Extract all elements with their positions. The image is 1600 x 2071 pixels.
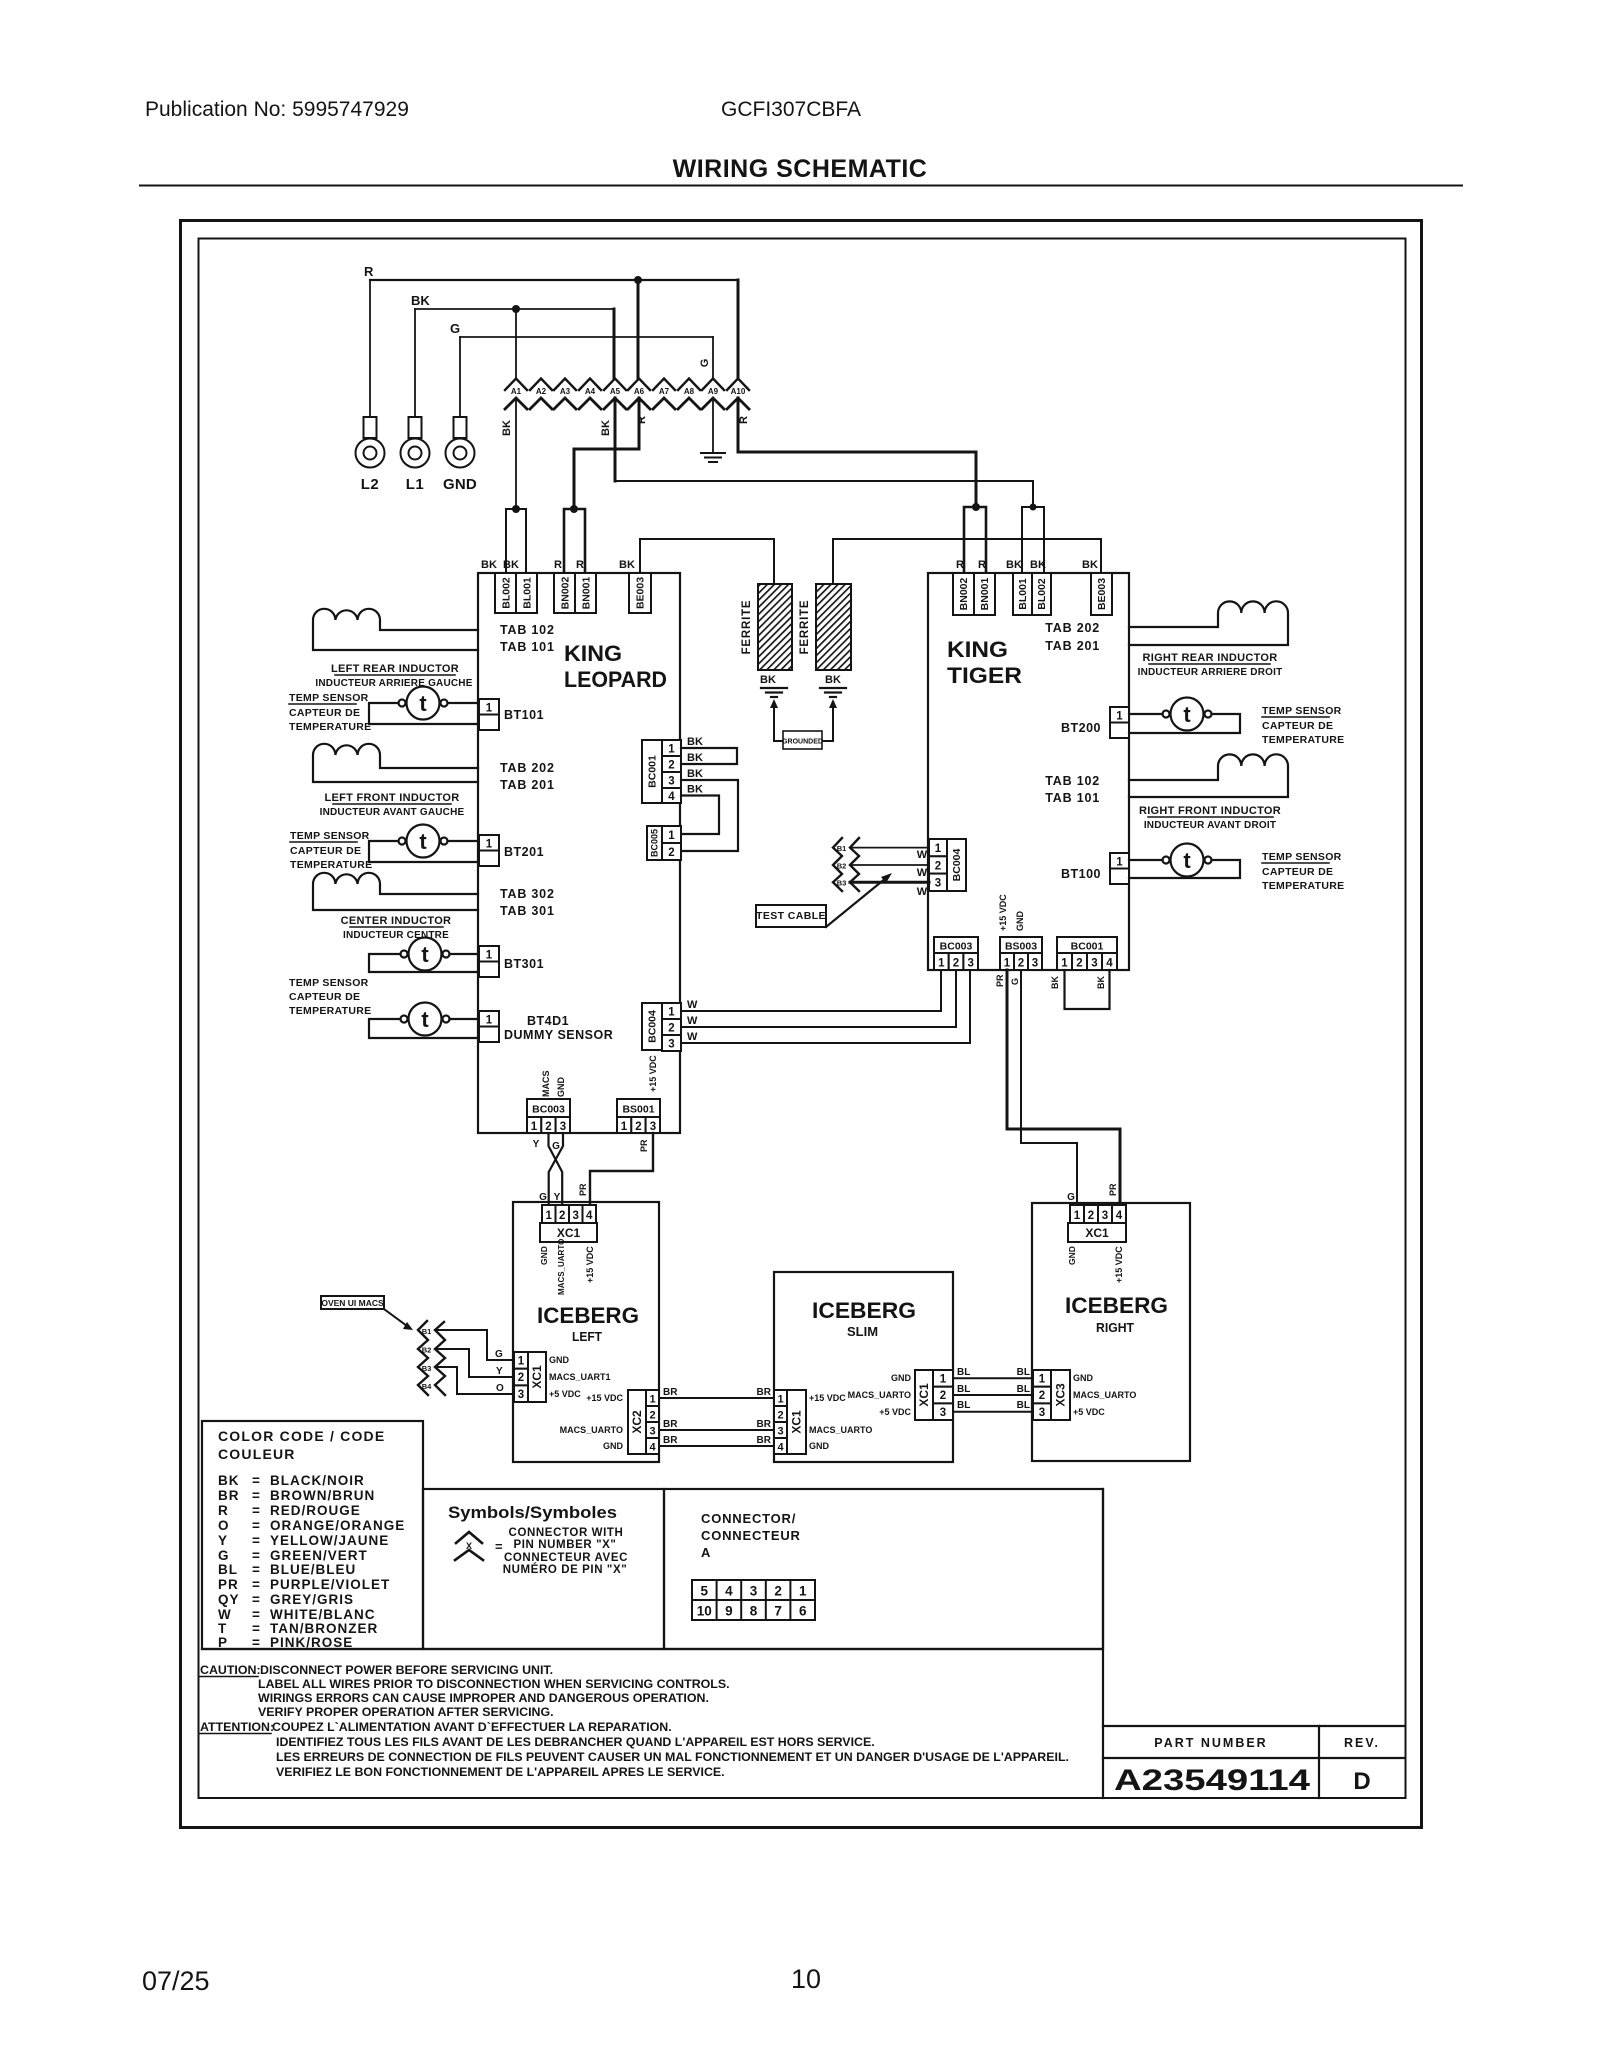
svg-text:1: 1 bbox=[1116, 857, 1123, 869]
svg-text:A23549114: A23549114 bbox=[1114, 1764, 1310, 1797]
svg-text:XC1: XC1 bbox=[557, 1226, 581, 1240]
svg-text:1: 1 bbox=[935, 843, 942, 855]
svg-text:t: t bbox=[419, 691, 427, 716]
svg-text:9: 9 bbox=[725, 1604, 733, 1619]
svg-text:3: 3 bbox=[940, 1407, 946, 1419]
svg-text:TEMP SENSOR: TEMP SENSOR bbox=[289, 692, 369, 704]
ground ferrite 1 bbox=[761, 688, 787, 697]
svg-text:BK: BK bbox=[411, 293, 430, 308]
connector BL001 (KL top) bbox=[516, 573, 537, 613]
terminal L1 bbox=[401, 417, 430, 468]
wire BC001 pin 3 to BC005 pin 2 BK bbox=[681, 780, 738, 851]
svg-text:W: W bbox=[917, 886, 928, 898]
svg-text:A6: A6 bbox=[634, 387, 645, 396]
svg-text:R: R bbox=[738, 416, 750, 424]
wire R drop to A10 bbox=[737, 280, 740, 379]
inductor right rear coil bbox=[1129, 601, 1288, 645]
svg-text:2: 2 bbox=[545, 1121, 551, 1133]
wire BC001 pin 4 to BC005 pin 1 BK bbox=[681, 796, 719, 835]
svg-text:BK: BK bbox=[501, 420, 513, 436]
wire L1 lead bbox=[414, 309, 416, 417]
wire B1 to BC004 pin1 bbox=[850, 847, 929, 849]
svg-text:2: 2 bbox=[940, 1390, 946, 1402]
svg-text:TEMP SENSOR: TEMP SENSOR bbox=[1262, 705, 1342, 717]
svg-text:=: = bbox=[252, 1577, 261, 1592]
svg-text:3: 3 bbox=[650, 1121, 656, 1133]
svg-text:A8: A8 bbox=[684, 387, 695, 396]
svg-text:TEMPERATURE: TEMPERATURE bbox=[289, 1005, 371, 1017]
svg-text:t: t bbox=[1183, 848, 1191, 873]
svg-text:BC004: BC004 bbox=[951, 848, 963, 881]
svg-text:FERRITE: FERRITE bbox=[741, 600, 753, 655]
wire KL BN split bbox=[564, 509, 585, 573]
svg-text:XC1: XC1 bbox=[1085, 1226, 1109, 1240]
ground under A9 bbox=[701, 453, 725, 462]
temp sensor BT100 bbox=[1129, 844, 1240, 879]
svg-text:=: = bbox=[495, 1539, 503, 1554]
svg-text:GROUNDED: GROUNDED bbox=[782, 739, 823, 746]
svg-text:PR: PR bbox=[1108, 1183, 1118, 1196]
wire ferrite 1 to grounded bbox=[774, 708, 783, 741]
svg-text:L2: L2 bbox=[361, 476, 380, 493]
wire B1 G to XC1 left pin1 bbox=[435, 1330, 514, 1360]
svg-text:G: G bbox=[218, 1548, 230, 1563]
svg-text:BC005: BC005 bbox=[650, 829, 660, 857]
inductor left front coil bbox=[313, 744, 478, 782]
wire G drop to A9 bbox=[712, 337, 714, 379]
svg-text:CAPTEUR DE: CAPTEUR DE bbox=[289, 707, 360, 719]
svg-text:RIGHT REAR INDUCTOR: RIGHT REAR INDUCTOR bbox=[1142, 652, 1277, 664]
wire KT BL split bbox=[1022, 507, 1044, 573]
svg-text:A: A bbox=[701, 1545, 711, 1560]
temp sensor BT301 bbox=[369, 938, 478, 973]
svg-text:3: 3 bbox=[777, 1426, 783, 1438]
leader oven ui macs arrow bbox=[384, 1309, 407, 1326]
wire KL BC003 Y/G crossover to XC1 bbox=[549, 1133, 563, 1203]
svg-text:3: 3 bbox=[560, 1121, 566, 1133]
svg-text:1: 1 bbox=[531, 1121, 538, 1133]
svg-text:PR: PR bbox=[639, 1139, 649, 1152]
svg-text:1: 1 bbox=[938, 958, 945, 970]
svg-text:PART NUMBER: PART NUMBER bbox=[1154, 1736, 1267, 1750]
svg-text:BT301: BT301 bbox=[504, 957, 544, 971]
cable chain B1-B4 left chevrons bbox=[418, 1321, 428, 1395]
svg-text:TEMPERATURE: TEMPERATURE bbox=[1262, 734, 1344, 746]
svg-text:BL: BL bbox=[957, 1367, 970, 1378]
svg-text:1: 1 bbox=[777, 1394, 783, 1406]
wire XC2 pin4 BR to SLIM XC1 pin4 bbox=[659, 1445, 774, 1447]
wire KT BE003 to ferrite 2 bbox=[833, 539, 1101, 584]
svg-text:CONNECTEUR: CONNECTEUR bbox=[701, 1528, 801, 1543]
svg-text:=: = bbox=[252, 1635, 261, 1650]
svg-text:KING: KING bbox=[564, 641, 622, 666]
pin box BT4D1 bbox=[479, 1011, 499, 1027]
connector BN001 (KT top) bbox=[974, 573, 995, 615]
svg-text:BS003: BS003 bbox=[1005, 941, 1037, 953]
svg-text:A4: A4 bbox=[585, 387, 596, 396]
svg-text:2: 2 bbox=[777, 1410, 783, 1422]
connector BS003 (KT bottom) bbox=[1000, 937, 1042, 953]
wire G top horizontal bbox=[460, 336, 713, 338]
svg-text:CAPTEUR DE: CAPTEUR DE bbox=[1262, 866, 1333, 878]
svg-text:4: 4 bbox=[586, 1210, 593, 1222]
svg-text:G: G bbox=[1067, 1192, 1075, 1203]
svg-text:4: 4 bbox=[1106, 958, 1113, 970]
wire R top horizontal bbox=[370, 279, 738, 281]
svg-text:BL002: BL002 bbox=[501, 577, 513, 609]
connector BL002 (KT top) bbox=[1032, 573, 1051, 615]
connector XC2 (ICEBERG LEFT right) bbox=[628, 1390, 646, 1454]
svg-text:BL: BL bbox=[1017, 1367, 1030, 1378]
inductor right front coil bbox=[1129, 754, 1288, 797]
svg-text:XC1: XC1 bbox=[530, 1365, 544, 1389]
svg-text:A7: A7 bbox=[659, 387, 670, 396]
svg-text:CONNECTOR WITH: CONNECTOR WITH bbox=[509, 1527, 624, 1539]
wire B2 Y to XC1 left pin2 bbox=[436, 1349, 514, 1377]
wire SLIM XC1 pin1 BL to XC3 pin1 bbox=[953, 1377, 1033, 1379]
connector BC001 (KL right) bbox=[642, 740, 662, 803]
svg-text:LEOPARD: LEOPARD bbox=[564, 667, 667, 692]
svg-text:TAB 101: TAB 101 bbox=[1045, 791, 1100, 805]
svg-text:07/25: 07/25 bbox=[142, 1966, 210, 1996]
svg-text:GCFI307CBFA: GCFI307CBFA bbox=[721, 98, 861, 121]
wire SLIM XC1 pin3 BL to XC3 pin3 bbox=[953, 1411, 1033, 1413]
svg-text:PIN NUMBER "X": PIN NUMBER "X" bbox=[513, 1539, 616, 1551]
svg-text:3: 3 bbox=[649, 1426, 655, 1438]
svg-text:TAB 102: TAB 102 bbox=[500, 623, 555, 637]
svg-text:MACS: MACS bbox=[541, 1071, 551, 1098]
svg-text:G: G bbox=[539, 1192, 547, 1203]
color code entries bbox=[218, 1473, 405, 1650]
svg-text:1: 1 bbox=[621, 1121, 628, 1133]
ICEBERG SLIM board box bbox=[774, 1272, 953, 1462]
temp sensor BT200 bbox=[1129, 698, 1240, 734]
wire R feed to KING LEOPARD BN pair bbox=[574, 449, 639, 509]
svg-text:B3: B3 bbox=[422, 1364, 432, 1373]
wire B3 to BC004 pin3 bbox=[850, 881, 929, 884]
svg-text:BK: BK bbox=[481, 559, 497, 571]
svg-text:=: = bbox=[252, 1592, 261, 1607]
svg-text:G: G bbox=[495, 1349, 503, 1360]
svg-text:+5 VDC: +5 VDC bbox=[879, 1407, 911, 1417]
svg-text:1: 1 bbox=[518, 1356, 525, 1368]
svg-text:XC3: XC3 bbox=[1054, 1383, 1068, 1407]
wire BK drop to A5 bbox=[613, 309, 616, 379]
wire A1 drop BK bbox=[515, 398, 517, 509]
connector BC005 (KL right) bbox=[647, 826, 662, 860]
svg-text:2: 2 bbox=[1018, 958, 1024, 970]
svg-text:MACS_UARTO: MACS_UARTO bbox=[560, 1425, 623, 1435]
wire BK drop to A1 bbox=[515, 309, 517, 379]
svg-text:G: G bbox=[552, 1141, 560, 1152]
svg-text:XC1: XC1 bbox=[917, 1383, 931, 1407]
connector XC1 (ICEBERG LEFT left) bbox=[514, 1352, 528, 1369]
node KL BN junction bbox=[570, 505, 578, 513]
svg-text:Y: Y bbox=[218, 1533, 228, 1548]
svg-text:BLUE/BLEU: BLUE/BLEU bbox=[270, 1562, 356, 1577]
svg-text:GND: GND bbox=[549, 1355, 570, 1365]
svg-text:3: 3 bbox=[1102, 1210, 1108, 1222]
connector A pin table bbox=[692, 1580, 815, 1620]
svg-text:BC004: BC004 bbox=[647, 1010, 659, 1043]
svg-text:R: R bbox=[554, 559, 562, 571]
svg-text:FERRITE: FERRITE bbox=[799, 600, 811, 655]
svg-text:BT201: BT201 bbox=[504, 845, 544, 859]
svg-text:3: 3 bbox=[1032, 958, 1038, 970]
svg-text:TEMP SENSOR: TEMP SENSOR bbox=[289, 977, 369, 989]
ground ferrite 2 bbox=[820, 688, 846, 697]
ICEBERG LEFT board box bbox=[513, 1202, 659, 1462]
part number table bbox=[1103, 1726, 1405, 1798]
svg-text:INDUCTEUR AVANT DROIT: INDUCTEUR AVANT DROIT bbox=[1144, 820, 1276, 831]
connector A legend box bbox=[664, 1489, 1103, 1649]
svg-text:3: 3 bbox=[668, 776, 674, 788]
svg-text:PURPLE/VIOLET: PURPLE/VIOLET bbox=[270, 1577, 390, 1592]
svg-text:BL002: BL002 bbox=[1036, 578, 1048, 610]
svg-text:BK: BK bbox=[619, 559, 635, 571]
svg-text:+15 VDC: +15 VDC bbox=[1114, 1246, 1124, 1283]
svg-text:BK: BK bbox=[218, 1473, 240, 1488]
svg-text:W: W bbox=[687, 1015, 698, 1027]
svg-text:CAUTION:: CAUTION: bbox=[200, 1663, 261, 1677]
wire A9 drop to ground bbox=[712, 398, 714, 452]
svg-text:CAPTEUR DE: CAPTEUR DE bbox=[290, 845, 361, 857]
svg-text:MACS_UART1: MACS_UART1 bbox=[549, 1372, 611, 1382]
svg-text:YELLOW/JAUNE: YELLOW/JAUNE bbox=[270, 1533, 389, 1548]
svg-text:BR: BR bbox=[218, 1488, 240, 1503]
svg-text:=: = bbox=[252, 1488, 261, 1503]
svg-text:BK: BK bbox=[1006, 559, 1022, 571]
svg-text:TAB 101: TAB 101 bbox=[500, 640, 555, 654]
svg-text:Symbols/Symboles: Symbols/Symboles bbox=[448, 1504, 617, 1522]
svg-text:1: 1 bbox=[486, 839, 493, 851]
ICEBERG RIGHT board box bbox=[1032, 1203, 1190, 1461]
KING LEOPARD board box bbox=[478, 573, 680, 1133]
node BK junction bbox=[512, 305, 520, 313]
KING TIGER board box bbox=[928, 573, 1129, 970]
svg-text:BK: BK bbox=[687, 768, 703, 780]
svg-text:B2: B2 bbox=[422, 1346, 432, 1355]
connector A row top chevrons bbox=[505, 379, 749, 391]
symbol connector chevrons bbox=[456, 1532, 482, 1543]
svg-text:10: 10 bbox=[791, 1964, 821, 1994]
svg-text:2: 2 bbox=[1039, 1390, 1045, 1402]
svg-text:GND: GND bbox=[556, 1077, 566, 1098]
wire A5 drop BK bbox=[614, 398, 617, 481]
wire GND lead bbox=[459, 337, 461, 417]
svg-text:1: 1 bbox=[486, 950, 493, 962]
svg-text:ATTENTION:: ATTENTION: bbox=[200, 1720, 274, 1734]
color code legend box bbox=[202, 1421, 423, 1649]
svg-text:WHITE/BLANC: WHITE/BLANC bbox=[270, 1607, 376, 1622]
connector XC1 (ICEBERG RIGHT top) bbox=[1070, 1205, 1084, 1223]
wire B3 O to XC1 left pin3 bbox=[437, 1367, 514, 1394]
svg-text:PR: PR bbox=[578, 1183, 588, 1196]
svg-text:3: 3 bbox=[967, 958, 973, 970]
svg-text:BE003: BE003 bbox=[635, 577, 647, 609]
svg-text:BROWN/BRUN: BROWN/BRUN bbox=[270, 1488, 375, 1503]
cable chain B1-B4 right chevrons bbox=[435, 1322, 445, 1395]
svg-text:BK: BK bbox=[760, 674, 776, 686]
wire R feed to KING TIGER BN pair bbox=[738, 452, 976, 507]
outer border frame bbox=[181, 221, 1422, 1828]
svg-text:BN002: BN002 bbox=[958, 577, 970, 610]
svg-text:W: W bbox=[917, 849, 928, 861]
ferrite 2 bbox=[816, 584, 851, 670]
svg-text:3: 3 bbox=[572, 1210, 578, 1222]
svg-text:R: R bbox=[636, 416, 648, 424]
svg-text:R: R bbox=[364, 264, 374, 279]
svg-text:8: 8 bbox=[750, 1604, 758, 1619]
svg-text:2: 2 bbox=[518, 1372, 524, 1384]
svg-text:ICEBERG: ICEBERG bbox=[812, 1298, 916, 1323]
svg-text:SLIM: SLIM bbox=[847, 1325, 878, 1339]
svg-text:Y: Y bbox=[533, 1139, 540, 1150]
connector XC1 (ICEBERG LEFT top) bbox=[542, 1205, 556, 1223]
svg-text:W: W bbox=[218, 1607, 232, 1622]
svg-text:R: R bbox=[218, 1503, 229, 1518]
svg-text:INDUCTEUR AVANT GAUCHE: INDUCTEUR AVANT GAUCHE bbox=[320, 807, 465, 818]
temp sensor BT4D1 dummy bbox=[369, 1003, 478, 1039]
wire BC004 pin2 W to KT BC003 pin2 bbox=[681, 970, 956, 1027]
svg-text:7: 7 bbox=[774, 1604, 782, 1619]
svg-text:GND: GND bbox=[603, 1441, 624, 1451]
node KT BL junction bbox=[1030, 504, 1037, 511]
svg-text:=: = bbox=[252, 1621, 261, 1636]
svg-text:1: 1 bbox=[1074, 1210, 1081, 1222]
svg-text:B1: B1 bbox=[837, 844, 847, 853]
svg-text:IDENTIFIEZ TOUS LES FILS AVANT: IDENTIFIEZ TOUS LES FILS AVANT DE LES DE… bbox=[276, 1735, 875, 1749]
connector BE003 (KT top) bbox=[1091, 573, 1112, 615]
svg-text:BR: BR bbox=[757, 1387, 772, 1398]
svg-text:10: 10 bbox=[697, 1604, 712, 1619]
svg-text:CENTER INDUCTOR: CENTER INDUCTOR bbox=[341, 915, 452, 927]
svg-text:TIGER: TIGER bbox=[947, 663, 1022, 688]
svg-text:MACS_UARTO: MACS_UARTO bbox=[1073, 1390, 1136, 1400]
svg-text:5: 5 bbox=[701, 1584, 709, 1599]
inductor left rear coil bbox=[313, 609, 478, 650]
wire XC2 pin1 BR to SLIM XC1 pin1 bbox=[659, 1397, 774, 1399]
svg-text:B1: B1 bbox=[422, 1327, 432, 1336]
svg-text:BL: BL bbox=[218, 1562, 238, 1577]
svg-text:A1: A1 bbox=[511, 387, 522, 396]
svg-text:A10: A10 bbox=[731, 387, 746, 396]
connector BL001 (KT top) bbox=[1013, 573, 1032, 615]
svg-text:t: t bbox=[421, 1007, 429, 1032]
wire KT BN split bbox=[964, 507, 986, 573]
svg-text:BL001: BL001 bbox=[522, 577, 534, 609]
svg-text:W: W bbox=[687, 1031, 698, 1043]
svg-text:TAB 302: TAB 302 bbox=[500, 887, 555, 901]
terminal L2 bbox=[356, 417, 385, 468]
node GROUNDED label bbox=[783, 731, 822, 749]
svg-text:3: 3 bbox=[750, 1584, 758, 1599]
svg-text:XC2: XC2 bbox=[630, 1410, 644, 1434]
wire BK top horizontal bbox=[415, 308, 614, 310]
svg-text:Y: Y bbox=[554, 1192, 561, 1203]
svg-text:BC001: BC001 bbox=[1071, 941, 1104, 953]
label OVEN UI MACS bbox=[321, 1296, 384, 1309]
svg-text:3: 3 bbox=[935, 878, 941, 890]
svg-text:=: = bbox=[252, 1473, 261, 1488]
wire KT BS003 pin1 PR to ICEBERG RIGHT XC1 pin4 bbox=[1007, 970, 1120, 1203]
label TEST CABLE bbox=[756, 905, 826, 927]
svg-text:BC001: BC001 bbox=[647, 755, 659, 788]
svg-text:CAPTEUR DE: CAPTEUR DE bbox=[1262, 720, 1333, 732]
inductor center coil bbox=[313, 873, 478, 910]
ferrite 1 bbox=[758, 584, 792, 670]
svg-text:3: 3 bbox=[1039, 1407, 1045, 1419]
svg-text:R: R bbox=[576, 559, 584, 571]
svg-text:BK: BK bbox=[687, 736, 703, 748]
svg-text:TEMPERATURE: TEMPERATURE bbox=[289, 721, 371, 733]
connector BC003 (KT bottom) bbox=[934, 937, 978, 953]
svg-text:TEST CABLE: TEST CABLE bbox=[756, 910, 826, 922]
svg-text:ICEBERG: ICEBERG bbox=[537, 1303, 639, 1328]
svg-text:P: P bbox=[218, 1635, 228, 1650]
connector XC1 (ICEBERG SLIM left) bbox=[774, 1390, 787, 1406]
wire KT BC001 pins 1-4 BK loop bbox=[1065, 970, 1110, 1009]
pin box BT101 bbox=[479, 699, 499, 715]
svg-text:REV.: REV. bbox=[1344, 1736, 1380, 1750]
svg-text:TAB 201: TAB 201 bbox=[500, 778, 555, 792]
svg-text:RED/ROUGE: RED/ROUGE bbox=[270, 1503, 361, 1518]
svg-text:4: 4 bbox=[668, 791, 675, 803]
svg-text:TEMPERATURE: TEMPERATURE bbox=[290, 859, 372, 871]
svg-text:GND: GND bbox=[891, 1373, 912, 1383]
svg-text:+15 VDC: +15 VDC bbox=[809, 1393, 846, 1403]
svg-text:BT200: BT200 bbox=[1061, 721, 1101, 735]
temp sensor BT201 bbox=[369, 825, 478, 863]
svg-text:VERIFIEZ LE BON FONCTIONNEMENT: VERIFIEZ LE BON FONCTIONNEMENT DE L'APPA… bbox=[276, 1765, 725, 1779]
svg-text:t: t bbox=[421, 942, 429, 967]
cable chain B1-B3 right chevrons bbox=[850, 838, 859, 891]
svg-text:BR: BR bbox=[757, 1419, 772, 1430]
connector BC003 (KL bottom) bbox=[527, 1099, 570, 1117]
connector BL002 (KL top) bbox=[495, 573, 516, 613]
cable chain B1-B3 left chevrons bbox=[833, 838, 842, 891]
svg-text:BE003: BE003 bbox=[1096, 578, 1108, 610]
svg-text:t: t bbox=[1183, 702, 1191, 727]
svg-text:Publication No: 5995747929: Publication No: 5995747929 bbox=[145, 98, 409, 121]
svg-text:BK: BK bbox=[687, 752, 703, 764]
svg-text:1: 1 bbox=[486, 703, 493, 715]
svg-text:3: 3 bbox=[518, 1389, 524, 1401]
connector BC004 (KL right) bbox=[642, 1003, 662, 1050]
svg-text:BL: BL bbox=[1017, 1384, 1030, 1395]
svg-text:WIRINGS ERRORS CAN CAUSE IMPRO: WIRINGS ERRORS CAN CAUSE IMPROPER AND DA… bbox=[258, 1691, 709, 1705]
node KL BL junction bbox=[512, 505, 520, 513]
svg-text:TAN/BRONZER: TAN/BRONZER bbox=[270, 1621, 378, 1636]
svg-text:1: 1 bbox=[668, 744, 675, 756]
svg-text:=: = bbox=[252, 1562, 261, 1577]
svg-text:1: 1 bbox=[668, 830, 675, 842]
caution box bbox=[202, 1489, 1103, 1798]
svg-text:BT101: BT101 bbox=[504, 708, 544, 722]
svg-text:4: 4 bbox=[649, 1442, 656, 1454]
svg-text:CONNECTEUR AVEC: CONNECTEUR AVEC bbox=[504, 1552, 628, 1564]
svg-text:QY: QY bbox=[218, 1592, 240, 1607]
svg-text:A5: A5 bbox=[610, 387, 621, 396]
pin box BT201 bbox=[479, 835, 499, 851]
svg-text:=: = bbox=[252, 1503, 261, 1518]
svg-text:LEFT: LEFT bbox=[572, 1330, 602, 1344]
svg-text:VERIFY PROPER OPERATION AFTER: VERIFY PROPER OPERATION AFTER SERVICING. bbox=[258, 1705, 554, 1719]
connector BE003 (KL top) bbox=[629, 573, 651, 613]
svg-text:GND: GND bbox=[443, 476, 477, 493]
svg-text:GND: GND bbox=[539, 1246, 549, 1265]
svg-text:=: = bbox=[252, 1607, 261, 1622]
